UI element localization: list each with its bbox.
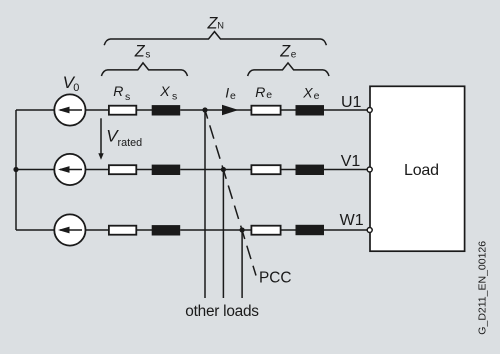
reactor Xs (phase 2): [152, 165, 181, 175]
terminal V1: [367, 167, 372, 172]
voltage source V0 (phase 1): [54, 94, 85, 125]
svg-text:R: R: [113, 83, 123, 99]
wire left bus: [15, 110, 17, 230]
PCC boundary dashed line: [205, 110, 256, 276]
wire row1: Rs to Xs: [137, 109, 152, 111]
load box: [370, 86, 465, 251]
other-loads feeder 2: [222, 170, 224, 299]
wire row2: Re2 to Xe2: [281, 169, 296, 171]
wire row1: Re to Xe: [281, 109, 296, 111]
terminal W1: [367, 228, 372, 233]
reactor Xs (phase 3): [152, 225, 181, 235]
reactor Xe (phase 1): [296, 105, 325, 115]
wire row3: bus to source: [16, 229, 54, 231]
svg-text:V1: V1: [341, 153, 361, 170]
wire row1: source to Rs: [86, 109, 110, 111]
svg-text:0: 0: [73, 82, 79, 94]
brace Ze: [248, 63, 329, 76]
arrow Vrated: [98, 118, 103, 160]
brace Zs: [101, 63, 187, 76]
other-loads feeder 1: [204, 110, 206, 298]
wire row1: bus to source: [16, 109, 54, 111]
reactor Xe (phase 3): [296, 225, 325, 235]
voltage source (phase 2): [54, 154, 85, 185]
svg-text:Load: Load: [404, 162, 439, 179]
svg-text:X: X: [159, 83, 170, 99]
reactor Xe (phase 2): [296, 165, 325, 175]
wire row2: Rs2 to Xs2: [137, 169, 152, 171]
svg-text:s: s: [145, 50, 150, 61]
wire row3: Rs3 to Xs3: [137, 229, 152, 231]
svg-text:X: X: [302, 84, 313, 100]
wire row3: Xs3 to Re3: [180, 229, 251, 231]
resistor Re: [251, 106, 280, 115]
svg-text:PCC: PCC: [259, 270, 292, 287]
wire row3: source to Rs3: [86, 229, 110, 231]
current arrow Ie: [222, 105, 239, 116]
resistor Rs (phase 3): [109, 226, 136, 235]
wire row2: bus to source: [16, 169, 54, 171]
svg-text:U1: U1: [341, 94, 362, 111]
resistor Rs: [109, 106, 136, 115]
wire row2: source to Rs2: [86, 169, 110, 171]
node PCC phase 1 (junction dot): [202, 107, 207, 112]
svg-text:e: e: [230, 90, 236, 102]
svg-text:s: s: [172, 90, 177, 102]
svg-text:e: e: [314, 90, 320, 102]
svg-text:R: R: [255, 84, 265, 100]
node PCC phase 2 (junction dot): [221, 167, 226, 172]
node PCC phase 3 (junction dot): [240, 227, 245, 232]
wire row2: Xs2 to Re2: [180, 169, 251, 171]
voltage source (phase 3): [54, 214, 85, 245]
svg-text:e: e: [291, 50, 297, 61]
svg-text:rated: rated: [118, 137, 143, 149]
resistor Re (phase 2): [251, 165, 280, 174]
svg-text:N: N: [217, 21, 224, 31]
wire row3: Re3 to Xe3: [281, 229, 296, 231]
resistor Re (phase 3): [251, 226, 280, 235]
svg-text:I: I: [225, 85, 229, 101]
terminal U1: [367, 108, 372, 113]
svg-text:Z: Z: [134, 43, 146, 61]
wire row2: Xe2 to terminal V1: [324, 169, 367, 171]
junction dot left bus: [13, 167, 18, 172]
svg-text:s: s: [125, 91, 130, 103]
svg-text:Z: Z: [279, 43, 291, 61]
resistor Rs (phase 2): [109, 165, 136, 174]
svg-text:W1: W1: [340, 212, 364, 229]
wire row1: Xe to terminal U1: [324, 109, 367, 111]
brace ZN: [104, 32, 326, 46]
svg-text:other loads: other loads: [185, 303, 259, 320]
wire row3: Xe3 to terminal W1: [324, 229, 367, 231]
wire row1: Xs to Re: [180, 109, 251, 111]
svg-text:G_D211_EN_00126: G_D211_EN_00126: [477, 241, 489, 335]
other-loads feeder 3: [241, 230, 243, 298]
svg-text:e: e: [266, 89, 272, 101]
reactor Xs (phase 1): [152, 105, 181, 115]
